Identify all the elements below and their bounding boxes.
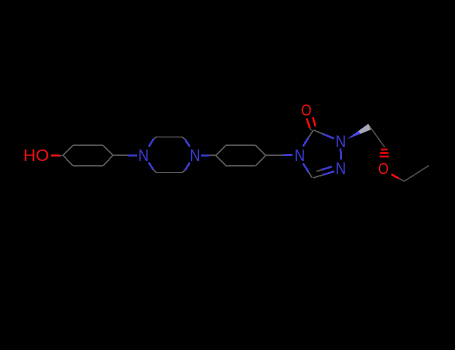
triazolone ring bond N4-C5: [303, 138, 309, 147]
triazolone ring bond C3-N4: [309, 172, 313, 178]
svg-text:HO: HO: [23, 147, 49, 165]
svg-text:N: N: [294, 147, 305, 165]
svg-text:O: O: [378, 161, 389, 178]
svg-text:N: N: [336, 160, 347, 178]
stereo hashed wedge C2'-O (ether): [379, 149, 389, 156]
stereo bold wedge N2-C1': [347, 124, 372, 139]
wire: bond CH2-CH3 of ethoxy: [404, 166, 429, 182]
wire: bond O-CH2 of ethoxy: [391, 174, 399, 178]
triazolone ring bond N2-N1: [340, 149, 342, 160]
svg-text:N: N: [190, 147, 201, 165]
central benzene ring (squashed hexagon): [216, 145, 266, 165]
wire: bond O-C1 of phenol ring (red half): [51, 155, 60, 157]
wire: bond central benzene to triazolone N4: [266, 154, 283, 156]
double bond N1=C3: [313, 167, 334, 178]
triazolone ring bond C5-N2: [314, 130, 323, 134]
svg-text:N: N: [138, 147, 149, 165]
wire: bond piperazine N2 to central benzene: [201, 154, 210, 156]
wire: bond phenol ring to piperazine N1: [113, 154, 128, 156]
wire: bond C1'-C2': [370, 127, 385, 147]
carbonyl C5=O double bond: [307, 117, 316, 130]
svg-text:O: O: [301, 103, 312, 120]
phenol ring (benzene, squashed hexagon): [63, 145, 113, 165]
piperazine ring: [149, 137, 190, 173]
